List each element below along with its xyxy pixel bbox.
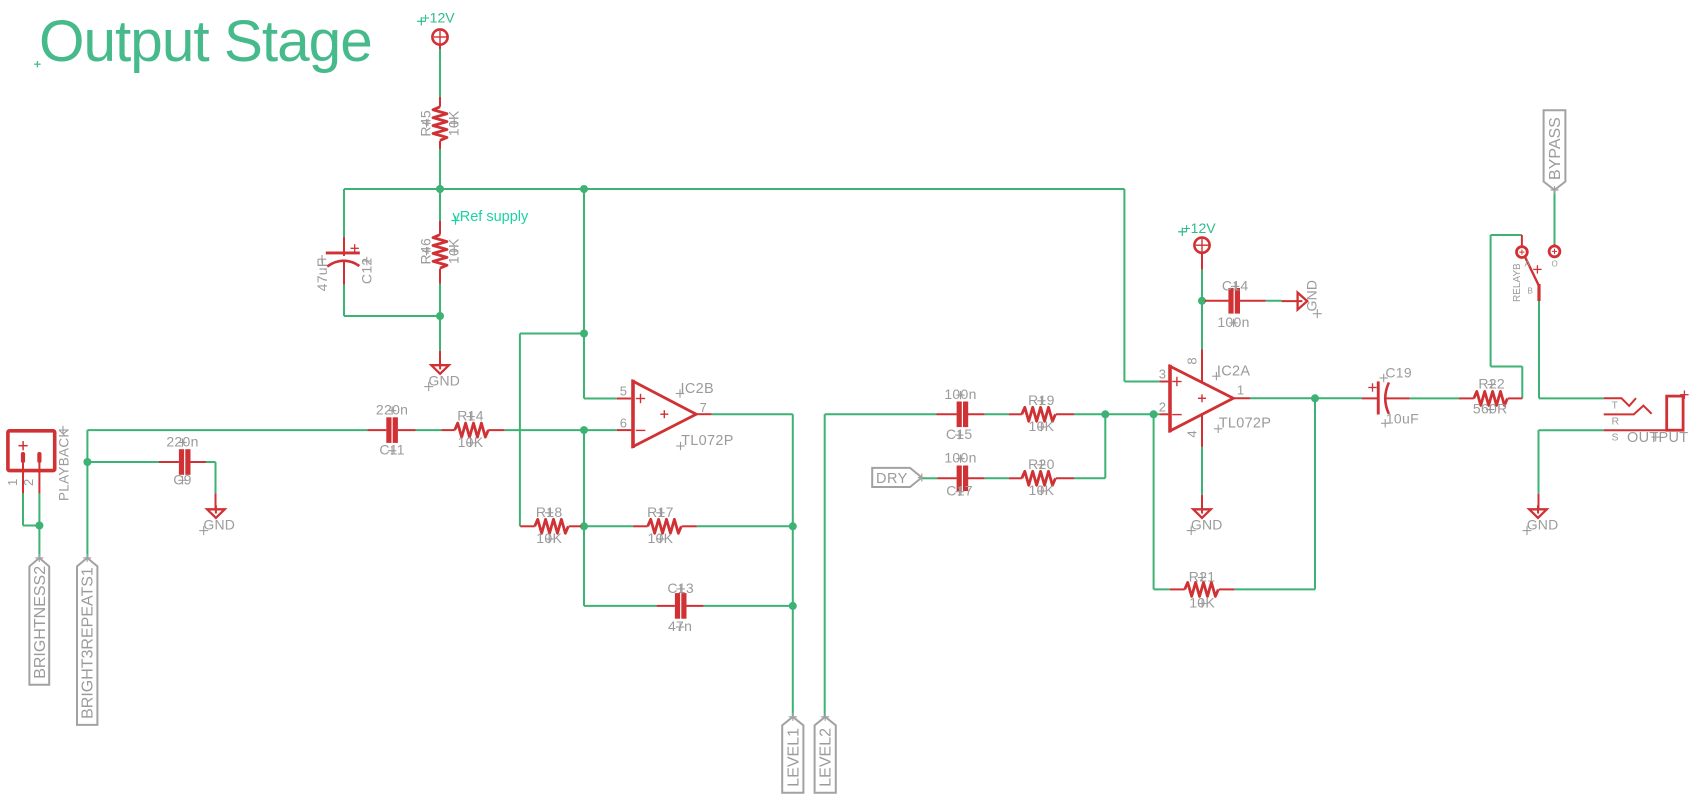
svg-text:4: 4 [1185,430,1200,437]
svg-text:GND: GND [203,516,235,532]
svg-text:RELAYB: RELAYB [1512,263,1523,302]
svg-text:A: A [1525,260,1531,269]
svg-text:+12V: +12V [1183,220,1217,236]
svg-text:3: 3 [1159,367,1166,382]
svg-text:T: T [1612,400,1619,412]
svg-text:2: 2 [21,479,36,486]
svg-text:C19: C19 [1385,364,1412,380]
svg-text:6: 6 [620,416,627,431]
svg-text:OUTPUT: OUTPUT [1627,430,1688,446]
svg-text:10uF: 10uF [1386,410,1419,426]
svg-text:BYPASS: BYPASS [1547,117,1564,180]
svg-text:1: 1 [5,479,20,486]
svg-text:R: R [1612,416,1620,428]
svg-text:O: O [1552,260,1558,269]
svg-text:TL072P: TL072P [1219,416,1272,432]
svg-text:8: 8 [1185,357,1200,364]
svg-text:GND: GND [428,372,460,388]
svg-text:S: S [1612,432,1619,444]
svg-text:1: 1 [1237,382,1244,397]
svg-text:vRef supply: vRef supply [453,209,530,225]
svg-text:DRY: DRY [876,471,908,487]
svg-text:LEVEL1: LEVEL1 [785,728,802,787]
svg-text:GND: GND [1527,516,1559,532]
svg-text:+12V: +12V [422,9,456,25]
svg-text:PLAYBACK: PLAYBACK [57,428,72,501]
svg-text:GND: GND [1191,516,1223,532]
svg-text:BRIGHTNESS2: BRIGHTNESS2 [32,566,49,679]
svg-text:TL072P: TL072P [681,433,734,449]
svg-text:Output Stage: Output Stage [39,9,372,74]
svg-text:5: 5 [620,384,627,399]
svg-text:BRIGHT3REPEATS1: BRIGHT3REPEATS1 [80,567,97,719]
svg-text:B: B [1528,287,1533,296]
svg-text:7: 7 [700,400,707,415]
svg-text:IC2B: IC2B [681,381,714,397]
svg-text:2: 2 [1159,399,1166,414]
svg-text:IC2A: IC2A [1217,364,1250,380]
svg-text:LEVEL2: LEVEL2 [818,728,835,787]
svg-text:GND: GND [1304,280,1320,312]
